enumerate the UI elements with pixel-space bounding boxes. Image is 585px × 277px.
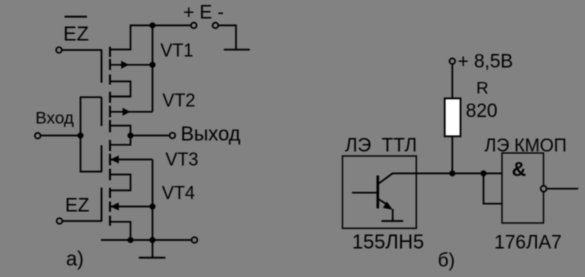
transistor VT1 channel (dashed) <box>109 47 111 85</box>
terminal output <box>170 133 176 139</box>
terminal -E <box>213 23 219 29</box>
wire -E terminal to ground <box>219 25 236 49</box>
wire emitter to ground <box>392 209 394 221</box>
terminal +E <box>191 23 197 29</box>
label EZ-bar overline <box>65 16 88 18</box>
transistor VT3 gate bar <box>101 145 103 172</box>
svg-text:Вход: Вход <box>35 109 74 128</box>
wire resistor to node <box>451 136 453 173</box>
transistor VT2 substrate arrow (p-channel) <box>110 111 153 113</box>
wire output node to output terminal <box>131 135 170 137</box>
svg-text:EZ: EZ <box>65 196 90 217</box>
svg-text:а): а) <box>66 248 84 270</box>
junction dot rail/ground <box>149 237 155 243</box>
svg-text:820: 820 <box>466 101 498 122</box>
junction dot input bus <box>77 132 83 138</box>
box TTL element <box>343 156 417 228</box>
transistor emitter with arrow <box>379 199 389 206</box>
junction dot resistor/wire <box>449 170 455 176</box>
terminal EZ-bar input <box>56 47 62 53</box>
wire vertical output line (lower) <box>152 160 154 241</box>
transistor VT2 drain stub <box>110 96 131 98</box>
transistor VT1 substrate arrow (p-channel) <box>110 64 153 66</box>
svg-text:155ЛН5: 155ЛН5 <box>352 232 424 254</box>
transistor VT1 gate bar <box>101 49 103 82</box>
junction dot rail/VT4 source <box>127 237 133 243</box>
svg-text:VT1: VT1 <box>160 41 193 61</box>
box CMOS element (NAND) <box>502 153 544 223</box>
transistor collector / wire to CMOS input <box>379 173 502 183</box>
svg-text:&: & <box>512 159 526 181</box>
svg-text:Выход: Выход <box>181 124 241 146</box>
wire vertical output line (upper) <box>152 25 154 111</box>
wire bottom rail <box>101 239 191 241</box>
transistor VT1 source wire to VT2 drain <box>110 81 131 96</box>
junction dot CMOS input branch <box>480 170 486 176</box>
wire terminal to resistor <box>451 64 453 98</box>
ground (top right) <box>224 49 250 51</box>
terminal bottom rail <box>192 237 198 243</box>
transistor VT3 substrate arrow (n-channel) <box>110 159 153 161</box>
transistor VT4 source wire to bottom rail <box>110 222 131 240</box>
junction dot VT1 arrow / output line <box>149 62 155 68</box>
transistor VT3 source wire to VT4 drain <box>110 175 131 191</box>
wire input bus VT3 gate connection <box>81 136 102 172</box>
svg-text:ЛЭ ТТЛ: ЛЭ ТТЛ <box>345 135 417 156</box>
junction dot output node <box>127 132 133 138</box>
svg-text:б): б) <box>438 250 455 271</box>
wire output <box>547 188 578 190</box>
junction dot top rail <box>149 22 155 28</box>
wire top rail to + terminal <box>153 24 191 26</box>
transistor VT4 channel (dashed) <box>109 188 111 226</box>
terminal EZ input <box>57 218 63 224</box>
transistor VT3 drain wire to output node <box>110 136 131 145</box>
svg-text:176ЛА7: 176ЛА7 <box>494 233 561 254</box>
transistor base lead <box>352 192 378 194</box>
svg-text:VT2: VT2 <box>162 91 195 111</box>
transistor VT2 channel (dashed) <box>109 92 111 133</box>
resistor R <box>445 98 461 136</box>
svg-text:R: R <box>476 79 488 98</box>
svg-text:+ 8,5В: + 8,5В <box>458 52 513 73</box>
svg-text:VT4: VT4 <box>162 183 195 203</box>
junction dot VT4 arrow / ground line <box>149 203 155 209</box>
transistor base bar (BJT) <box>376 176 379 209</box>
transistor VT4 gate bar <box>101 188 103 222</box>
wire input bus VT2 gate connection <box>81 97 102 135</box>
svg-text:+ E -: + E - <box>183 3 224 24</box>
wire EZ to VT4 gate <box>63 220 102 222</box>
wire input to bus <box>41 135 81 137</box>
ground (TTL emitter) <box>382 220 404 222</box>
transistor VT1 drain wire to +E rail <box>110 25 153 49</box>
wire branch to second input <box>484 173 503 203</box>
ground (bottom) <box>152 240 154 258</box>
terminal +8.5V <box>450 58 456 64</box>
transistor VT4 substrate arrow (n-channel) <box>110 206 153 208</box>
svg-text:VT3: VT3 <box>165 150 198 170</box>
wire EZ-bar to VT1 gate <box>62 49 101 51</box>
transistor VT2 source wire to output node <box>110 126 131 136</box>
svg-text:EZ: EZ <box>63 23 89 45</box>
transistor VT3 channel (dashed) <box>109 140 111 180</box>
inversion bubble <box>541 186 547 192</box>
transistor VT2 gate bar <box>101 97 103 126</box>
terminal input <box>35 133 41 139</box>
